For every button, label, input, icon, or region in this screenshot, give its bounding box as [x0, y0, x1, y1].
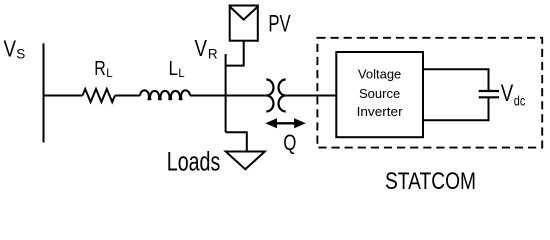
resistor RL — [83, 89, 116, 102]
svg-text:S: S — [16, 47, 25, 62]
ground triangle (Loads) — [226, 152, 265, 170]
svg-text:R: R — [94, 57, 106, 80]
svg-text:Inverter: Inverter — [357, 104, 404, 119]
transformer T1 left winding — [266, 80, 273, 112]
wire — [286, 95, 337, 97]
svg-text:Source: Source — [359, 86, 400, 101]
source bus Vs — [43, 43, 45, 142]
svg-text:L: L — [106, 68, 113, 80]
svg-text:PV: PV — [268, 10, 290, 37]
svg-text:V: V — [195, 35, 208, 61]
svg-text:V: V — [501, 80, 514, 107]
STATCOM dashed boundary — [317, 38, 542, 148]
arrow Q (double-headed) — [275, 122, 296, 124]
svg-text:STATCOM: STATCOM — [385, 168, 476, 195]
PV panel — [230, 6, 258, 41]
svg-text:L: L — [169, 57, 179, 80]
wire dc top — [423, 69, 489, 91]
svg-text:dc: dc — [514, 93, 526, 108]
svg-text:L: L — [178, 68, 185, 80]
wire — [115, 95, 140, 97]
wire dc bottom — [423, 97, 489, 120]
svg-text:V: V — [4, 36, 17, 62]
capacitor Vdc — [479, 90, 499, 92]
wire — [190, 95, 266, 97]
svg-text:Voltage: Voltage — [358, 67, 401, 82]
wire loads stem — [226, 132, 247, 151]
wire PV stem — [226, 41, 244, 66]
node VR riser — [225, 54, 227, 132]
wire — [44, 95, 83, 97]
transformer T1 right winding — [279, 80, 286, 112]
svg-text:R: R — [208, 47, 218, 62]
svg-text:Q: Q — [283, 130, 296, 155]
inductor LL — [140, 90, 190, 100]
box U1 Voltage Source Inverter — [336, 52, 423, 137]
svg-text:Loads: Loads — [167, 147, 221, 177]
